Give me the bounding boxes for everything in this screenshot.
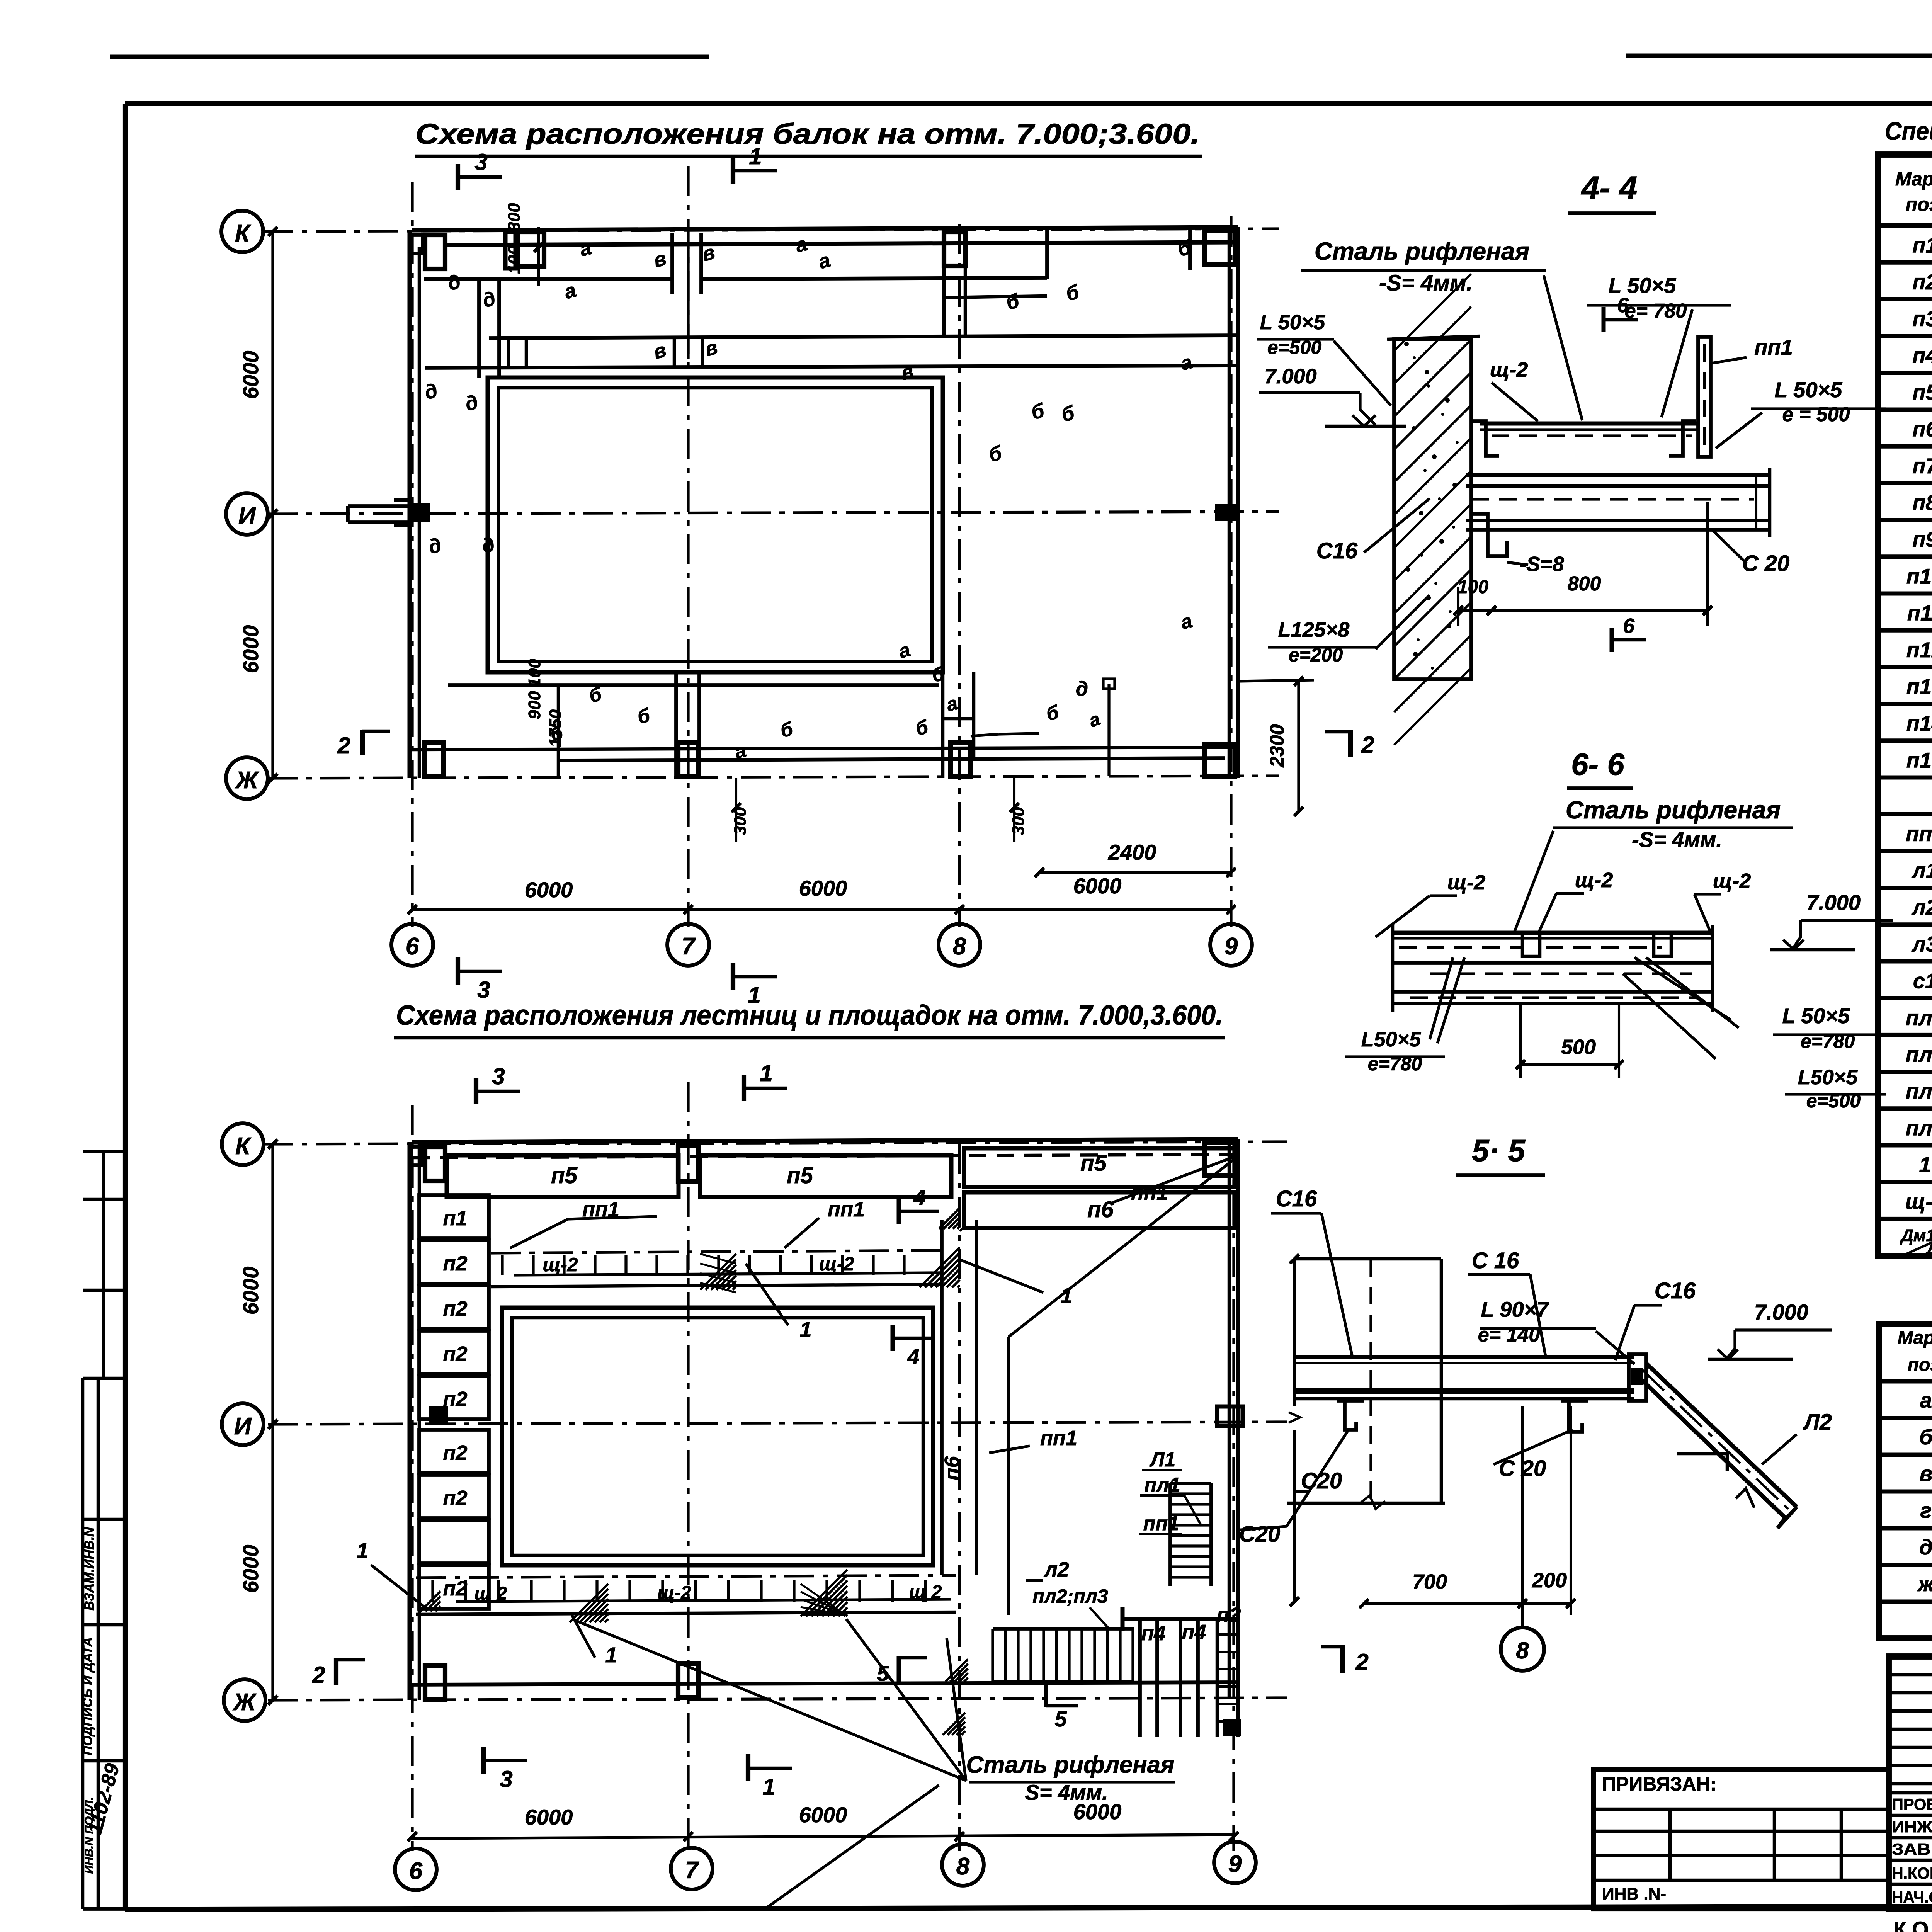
svg-text:пл1: пл1	[1906, 1042, 1932, 1066]
svg-text:1: 1	[760, 1060, 772, 1086]
svg-text:2: 2	[1361, 732, 1374, 758]
bp section mark 3 bottom	[481, 1747, 486, 1774]
svg-text:6000: 6000	[1073, 874, 1122, 898]
sidebar tick	[83, 1623, 125, 1627]
right bottom columns	[1138, 1619, 1142, 1737]
hatch bottom square2	[801, 1570, 847, 1616]
spec row line	[1878, 297, 1932, 301]
svg-text:пл4: пл4	[1906, 1005, 1932, 1030]
sheet top edge broken line right	[1626, 54, 1932, 58]
svg-text:л2: л2	[1043, 1558, 1069, 1581]
spec row line	[1878, 886, 1932, 890]
beam line below tank	[448, 683, 939, 687]
svg-text:2: 2	[312, 1662, 325, 1688]
hatch bottom square1	[570, 1584, 608, 1622]
spec row line	[1878, 518, 1932, 522]
sheet top edge broken line left	[110, 55, 709, 59]
beam vertical x1445	[557, 685, 560, 778]
svg-text:-S= 4мм.: -S= 4мм.	[1379, 270, 1473, 296]
svg-text:100: 100	[505, 245, 524, 274]
privyazan box	[1594, 1770, 1889, 1909]
55 stringer step	[1677, 1454, 1727, 1471]
spec row line	[1878, 371, 1932, 375]
svg-text:Ж: Ж	[235, 767, 259, 794]
bp right wall outer	[1228, 1139, 1231, 1698]
svg-text:8: 8	[953, 933, 966, 960]
right bottom stair small	[1216, 1619, 1219, 1737]
svg-text:щ 2: щ 2	[474, 1583, 507, 1604]
svg-text:п6: п6	[1912, 417, 1932, 441]
svg-text:100: 100	[1458, 577, 1488, 597]
svg-text:3: 3	[492, 1063, 505, 1089]
svg-text:6000: 6000	[799, 1803, 847, 1827]
hatch small col8 bottom	[946, 1659, 968, 1682]
svg-text:пл2;пл3: пл2;пл3	[1032, 1585, 1108, 1607]
svg-text:щ-2: щ-2	[819, 1253, 854, 1275]
svg-text:L 50×5: L 50×5	[1782, 1003, 1850, 1028]
svg-text:Сталь рифленая: Сталь рифленая	[1315, 237, 1529, 265]
svg-text:9: 9	[1225, 933, 1238, 960]
svg-text:С16: С16	[1276, 1186, 1317, 1211]
vedomost outer	[1879, 1324, 1932, 1638]
platform P5 box 3	[964, 1148, 1235, 1187]
column square I-left	[411, 503, 430, 522]
svg-text:пп1: пп1	[1040, 1427, 1077, 1450]
svg-text:1: 1	[1919, 1153, 1931, 1177]
spec row line	[1878, 444, 1932, 449]
svg-text:700: 700	[1412, 1570, 1447, 1594]
svg-text:пл2: пл2	[1906, 1079, 1932, 1103]
55 left bracket C20	[1345, 1401, 1356, 1430]
44 plate left bracket	[1471, 421, 1499, 456]
svg-text:пп1: пп1	[1754, 335, 1793, 359]
vedomost row line	[1879, 1453, 1932, 1457]
spec row line	[1878, 554, 1932, 559]
44 beam end ticks	[1768, 468, 1772, 537]
spec row line	[1878, 1143, 1932, 1148]
sidebar bottom close	[83, 1907, 125, 1911]
bottom stair rails	[993, 1627, 1134, 1631]
sidebar outer vertical lower	[81, 1378, 85, 1909]
beam band2 top chord	[489, 335, 1238, 338]
section 6-6 underline	[1567, 786, 1633, 790]
hatch bottom left small	[420, 1591, 440, 1611]
section mark 2 left	[360, 730, 365, 755]
spec row line	[1878, 849, 1932, 853]
bp grid circle Zh	[224, 1679, 265, 1721]
sidebar inner vertical upper	[102, 1151, 105, 1378]
svg-text:ЗАВ.ГР.: ЗАВ.ГР.	[1892, 1840, 1932, 1858]
44 beam bottom band	[1466, 519, 1770, 522]
svg-text:С 16: С 16	[1472, 1248, 1519, 1273]
stub beam I left outside	[348, 504, 410, 508]
svg-text:6000: 6000	[238, 1545, 263, 1593]
44 concrete wall hatch	[1394, 339, 1471, 679]
44 dim line	[1458, 609, 1708, 612]
bottom plan title underline	[394, 1036, 1225, 1040]
bp axis circle 7	[671, 1848, 713, 1889]
beam vertical right end top	[1045, 227, 1049, 279]
stair L1 right rails	[1168, 1483, 1172, 1586]
tank inner rectangle	[498, 388, 932, 662]
svg-text:п9: п9	[1912, 527, 1932, 551]
svg-text:С16: С16	[1316, 538, 1358, 563]
axis circle 6	[391, 924, 433, 966]
svg-text:д: д	[1919, 1535, 1932, 1559]
44 wall break top	[1387, 336, 1480, 339]
svg-text:Л1: Л1	[1149, 1449, 1176, 1471]
svg-text:поз.: поз.	[1908, 1355, 1932, 1375]
svg-text:6000: 6000	[525, 1805, 573, 1829]
44 level flag	[1360, 393, 1376, 425]
column stub K-6	[425, 235, 445, 269]
svg-text:5: 5	[1054, 1707, 1067, 1731]
section mark 2 right	[1348, 730, 1353, 757]
svg-text:6000: 6000	[238, 1267, 263, 1315]
svg-text:л2: л2	[1911, 895, 1932, 919]
55 dashed axis	[1369, 1259, 1372, 1503]
svg-text:г: г	[1920, 1498, 1932, 1522]
svg-text:ИНВ .N-: ИНВ .N-	[1602, 1884, 1666, 1903]
44 leader from stal	[1544, 275, 1582, 420]
leader to b label right	[999, 733, 1039, 734]
spec header bottom line	[1878, 223, 1932, 228]
spec row line	[1878, 592, 1932, 596]
bp column stub K-9	[1205, 1142, 1236, 1175]
spec row line	[1878, 260, 1932, 265]
shield strip top band bottom	[491, 1284, 943, 1287]
column stub Zh-8	[951, 743, 971, 777]
svg-text:4- 4: 4- 4	[1581, 170, 1638, 206]
column stub Zh-9	[1205, 744, 1235, 777]
spec row line	[1878, 628, 1932, 633]
svg-text:щ-2: щ-2	[1447, 871, 1486, 894]
bp tank outer rectangle	[502, 1308, 933, 1565]
svg-text:200: 200	[1532, 1569, 1567, 1592]
vedomost row line	[1879, 1636, 1932, 1641]
bp left dimension line	[271, 1144, 274, 1700]
66 leaders to L50	[1430, 957, 1453, 1039]
55 wall break bottom	[1287, 1502, 1445, 1505]
platform P5 box 2	[700, 1155, 951, 1197]
spec row line	[1878, 702, 1932, 706]
svg-text:щ-2: щ-2	[1905, 1189, 1932, 1214]
grid axis Zh line	[268, 776, 1279, 778]
spec row line	[1878, 922, 1932, 927]
svg-text:п1: п1	[443, 1207, 467, 1230]
top plan title underline	[415, 155, 1202, 158]
svg-text:ж: ж	[1917, 1571, 1932, 1596]
stair L1 rungs	[1170, 1482, 1211, 1485]
svg-text:пп1: пп1	[828, 1198, 865, 1221]
44 bottom bracket	[1471, 514, 1507, 556]
55 section mark T2	[1340, 1645, 1345, 1673]
bp column square I left	[429, 1406, 448, 1424]
svg-text:п2: п2	[1912, 270, 1932, 294]
66 platform plate top	[1393, 931, 1713, 935]
svg-text:2400: 2400	[1108, 840, 1156, 864]
svg-text:Спецификация элементов к схеме: Спецификация элементов к схеме расположе…	[1885, 117, 1932, 145]
svg-text:п15: п15	[1906, 748, 1932, 772]
section 5-5 underline	[1456, 1173, 1545, 1177]
svg-text:6: 6	[406, 933, 419, 960]
vedomost row line	[1879, 1490, 1932, 1494]
beam d tick right	[1238, 680, 1314, 681]
grid circle K	[221, 211, 263, 252]
55 platform top lines	[1294, 1355, 1634, 1359]
svg-text:6000: 6000	[238, 351, 263, 399]
beam verticals at col8 top	[942, 242, 946, 335]
svg-text:С16: С16	[1655, 1278, 1696, 1303]
stamp outer box	[1889, 1656, 1932, 1909]
bp column stub Zh-6	[425, 1665, 445, 1699]
beam line top band bottom	[424, 277, 672, 281]
44 plate right bracket	[1669, 421, 1696, 456]
svg-text:1: 1	[749, 143, 762, 169]
svg-text:8: 8	[956, 1853, 970, 1880]
55 platform beam thick	[1294, 1388, 1634, 1394]
svg-text:п2: п2	[443, 1297, 467, 1320]
grid circle Zh	[226, 757, 268, 799]
bp Zh wall upper line	[412, 1682, 1238, 1685]
svg-text:п6: п6	[1087, 1197, 1114, 1222]
svg-text:6- 6: 6- 6	[1571, 747, 1624, 781]
shield strip top rail	[514, 1273, 939, 1275]
column stub K-7 right	[518, 232, 544, 267]
spec row line	[1878, 812, 1932, 816]
bp column axis 7	[687, 1082, 689, 1851]
44 section mark 6 top	[1602, 307, 1606, 332]
vedomost row line	[1879, 1416, 1932, 1420]
platform P5 box 1	[447, 1155, 679, 1197]
55 right bracket C20	[1569, 1401, 1582, 1432]
svg-text:п5: п5	[1080, 1151, 1107, 1176]
spec row line	[1878, 408, 1932, 412]
column axis 8	[958, 224, 961, 927]
44 section mark 6 bottom	[1610, 628, 1614, 652]
sheet frame top	[125, 101, 1932, 106]
svg-text:пл1: пл1	[1144, 1474, 1180, 1496]
svg-text:e = 500: e = 500	[1782, 403, 1850, 426]
svg-text:1: 1	[356, 1538, 368, 1563]
svg-text:Сталь рифленая: Сталь рифленая	[1566, 796, 1781, 824]
svg-text:Ж: Ж	[232, 1689, 257, 1716]
vedomost row line	[1879, 1563, 1932, 1567]
66 leader stal	[1515, 831, 1553, 931]
spec row line	[1878, 1180, 1932, 1184]
bp section mark 1 top	[742, 1075, 746, 1101]
svg-text:п2: п2	[443, 1388, 467, 1411]
section 4-4 underline	[1568, 211, 1656, 215]
svg-text:7.000: 7.000	[1806, 890, 1861, 915]
svg-text:900: 900	[525, 691, 544, 719]
svg-text:п2: п2	[443, 1486, 467, 1510]
sheet frame bottom	[125, 1905, 1932, 1910]
vedomost row line	[1879, 1526, 1932, 1531]
svg-text:L125×8: L125×8	[1278, 618, 1350, 641]
svg-text:ПОДПИСЬ И ДАТА: ПОДПИСЬ И ДАТА	[80, 1637, 95, 1755]
column axis 7	[687, 166, 689, 927]
svg-text:L 50×5: L 50×5	[1260, 311, 1326, 334]
svg-text:-S= 4мм.: -S= 4мм.	[1632, 827, 1722, 852]
spec row line	[1878, 1033, 1932, 1037]
svg-text:Сталь рифленая: Сталь рифленая	[966, 1752, 1174, 1778]
section mark 3 bottom	[456, 957, 460, 985]
svg-text:6000: 6000	[525, 878, 573, 902]
beam short verticals mid band2	[507, 338, 510, 368]
svg-text:п2: п2	[443, 1342, 467, 1366]
bp column square I right	[1217, 1406, 1243, 1426]
svg-text:Л2: Л2	[1803, 1410, 1832, 1435]
left cell stack	[419, 1195, 489, 1238]
bp left wall inner	[418, 1142, 421, 1700]
svg-text:п5: п5	[1912, 380, 1932, 404]
shield strip top line	[491, 1250, 943, 1253]
svg-text:п3: п3	[1912, 306, 1932, 331]
column stub Zh-6	[424, 743, 444, 777]
svg-text:Н.КОНТР: Н.КОНТР	[1892, 1864, 1932, 1882]
svg-text:п10: п10	[1906, 564, 1932, 588]
svg-text:а: а	[1920, 1388, 1932, 1412]
svg-text:7.000: 7.000	[1754, 1300, 1808, 1324]
spec row line	[1878, 665, 1932, 669]
stojka d mark	[1107, 684, 1110, 776]
bp grid axis I line	[268, 1422, 1287, 1424]
svg-text:л1: л1	[1911, 858, 1932, 883]
svg-text:п6: п6	[940, 1456, 964, 1481]
svg-text:п5: п5	[787, 1163, 813, 1188]
svg-text:пп1: пп1	[1143, 1512, 1179, 1535]
svg-text:ПРИВЯЗАН:: ПРИВЯЗАН:	[1602, 1773, 1716, 1795]
svg-text:2: 2	[1355, 1649, 1368, 1675]
spec row line	[1878, 776, 1932, 780]
66 plate joint hooks	[1522, 933, 1540, 956]
section mark 4 mid	[891, 1325, 895, 1351]
stamp left grid rows upper	[1889, 1673, 1932, 1677]
55 stringer bottom end	[1777, 1507, 1797, 1528]
svg-text:7.000: 7.000	[1264, 365, 1316, 388]
column stub K-7 left	[505, 232, 515, 269]
sidebar tick	[83, 1518, 125, 1521]
spec row line	[1878, 996, 1932, 1000]
top wall line K inner	[443, 242, 1238, 245]
spec table outer	[1878, 155, 1932, 1256]
sidebar tick	[83, 1150, 125, 1153]
bp grid circle K	[222, 1123, 264, 1165]
column 7 verticals bottom zone	[674, 672, 678, 778]
p6 strip vertical right	[975, 1220, 978, 1575]
svg-text:п1: п1	[1912, 233, 1932, 257]
svg-text:3: 3	[474, 149, 487, 175]
section mark 1 top	[731, 158, 735, 184]
svg-text:с1: с1	[1913, 969, 1932, 993]
svg-text:5· 5: 5· 5	[1472, 1133, 1526, 1168]
svg-text:п14: п14	[1906, 711, 1932, 735]
axis circle 7	[667, 924, 709, 966]
shield strip ticks top	[501, 1255, 503, 1275]
bp top wall inner dashed	[412, 1155, 1238, 1158]
column square I-right	[1215, 504, 1237, 521]
axis circle 9	[1210, 924, 1252, 966]
svg-text:9: 9	[1228, 1851, 1242, 1878]
svg-text:б: б	[1919, 1425, 1932, 1449]
55 circle 8	[1501, 1628, 1544, 1671]
section mark 1 bottom	[731, 963, 735, 990]
hatch small near5	[943, 1713, 965, 1735]
right wall inner	[1236, 227, 1240, 778]
svg-text:п4: п4	[1182, 1621, 1206, 1644]
svg-text:И: И	[234, 1413, 252, 1440]
55 column edge	[1440, 1259, 1443, 1503]
vedomost header bottom	[1879, 1379, 1932, 1384]
bp column stub K-6	[425, 1147, 445, 1181]
bp tank inner rectangle	[512, 1318, 923, 1555]
svg-text:6000: 6000	[238, 625, 263, 673]
svg-text:п12: п12	[1906, 638, 1932, 662]
svg-text:3: 3	[500, 1766, 512, 1792]
svg-text:щ-2: щ-2	[1713, 869, 1751, 893]
svg-text:L50×5: L50×5	[1361, 1028, 1422, 1051]
svg-text:500: 500	[1561, 1036, 1596, 1059]
svg-text:К: К	[235, 1133, 252, 1160]
svg-text:С20: С20	[1239, 1522, 1280, 1547]
hatch square top right	[920, 1247, 960, 1287]
spec row line	[1878, 1070, 1932, 1074]
bottom strip ticks	[431, 1580, 434, 1602]
44 pp1 vertical plate	[1698, 337, 1711, 457]
bp section mark 3 top	[474, 1078, 478, 1104]
sidebar tick	[83, 1377, 125, 1380]
sidebar tick	[83, 1289, 125, 1292]
svg-text:8: 8	[1516, 1638, 1529, 1663]
55 stair stringer	[1647, 1364, 1797, 1507]
column 8 verticals bottom zone	[941, 672, 945, 778]
svg-text:6: 6	[409, 1858, 423, 1884]
dim 2400 line	[1039, 871, 1231, 874]
bottom stair rungs	[991, 1629, 994, 1682]
column stub Zh-7	[678, 743, 698, 777]
beam band2 bottom chord	[425, 366, 1238, 368]
svg-text:1: 1	[799, 1317, 811, 1342]
svg-text:К: К	[235, 220, 251, 247]
spec row line	[1878, 1253, 1932, 1258]
bp axis circle 8	[942, 1844, 984, 1886]
bp section mark 1 bottom	[746, 1754, 750, 1781]
spec row line	[1878, 334, 1932, 338]
bottom strip rail	[456, 1599, 951, 1602]
svg-text:п2: п2	[443, 1441, 467, 1464]
svg-text:6: 6	[1617, 294, 1629, 317]
right wall outer	[1228, 227, 1231, 778]
bp top wall outer	[412, 1139, 1238, 1142]
svg-text:пл3: пл3	[1906, 1116, 1932, 1140]
svg-text:п2: п2	[443, 1252, 467, 1275]
section mark 4 top	[897, 1198, 901, 1224]
bp axis circle 9	[1214, 1842, 1256, 1883]
vedomost row line	[1879, 1600, 1932, 1604]
tank outer rectangle	[488, 378, 943, 672]
svg-text:2300: 2300	[1266, 724, 1288, 767]
sidebar tick	[83, 1759, 125, 1763]
bp right wall inner	[1236, 1139, 1240, 1698]
svg-text:п5: п5	[551, 1163, 577, 1188]
svg-text:ИНЖЕН.: ИНЖЕН.	[1892, 1818, 1932, 1836]
left wall outer	[408, 230, 412, 778]
bottom dimension line	[412, 908, 1231, 911]
bp axis circle 6	[395, 1849, 437, 1890]
svg-text:С 20: С 20	[1742, 551, 1790, 576]
section mark 3 top	[456, 164, 460, 190]
